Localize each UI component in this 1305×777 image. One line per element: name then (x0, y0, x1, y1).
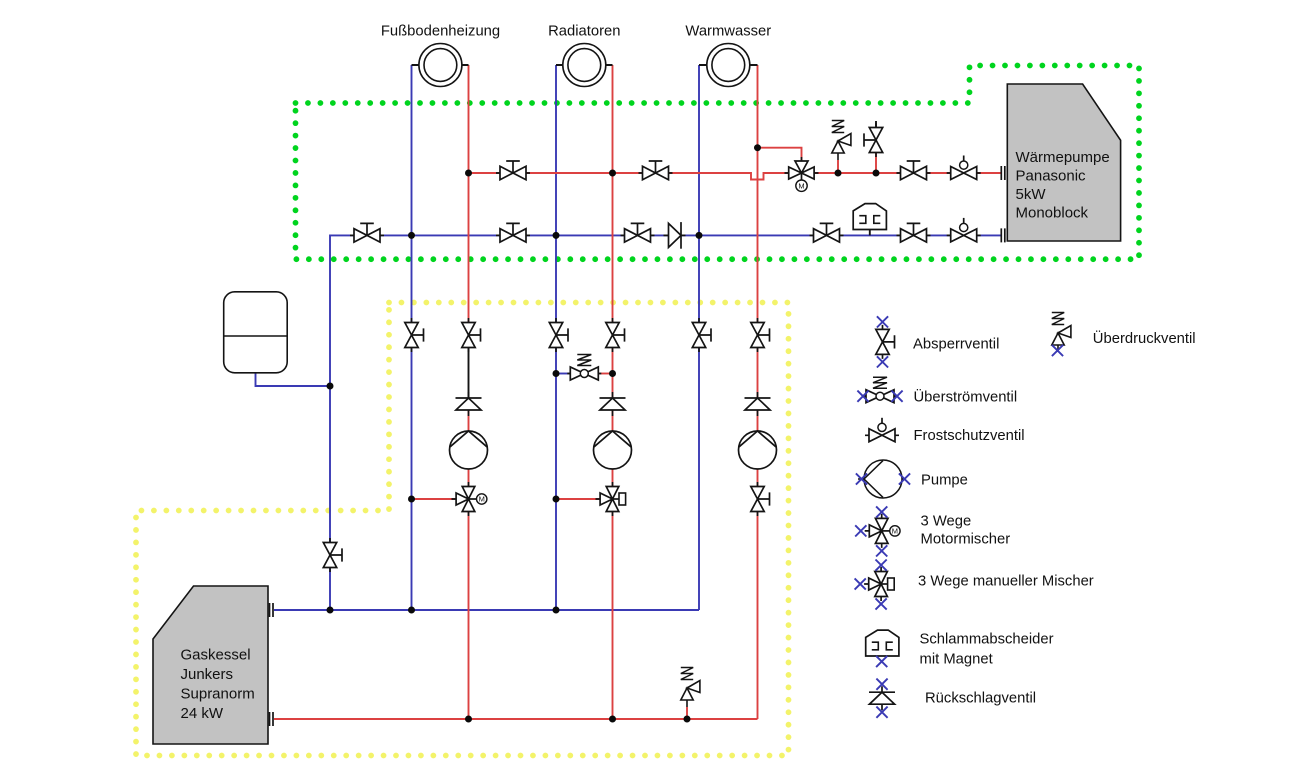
legend Rueckschlagventil (869, 679, 1036, 718)
svg-text:Junkers: Junkers (181, 666, 234, 683)
junction FBH supply / main supply (465, 170, 472, 177)
junction overflow right (609, 370, 616, 377)
junction Radiatoren supply / main supply (609, 170, 616, 177)
legend Ueberdruckventil (1052, 313, 1196, 357)
svg-text:Panasonic: Panasonic (1016, 168, 1087, 185)
wire: expansion vessel link (256, 373, 331, 386)
svg-text:Pumpe: Pumpe (921, 473, 968, 489)
svg-text:Überdruckventil: Überdruckventil (1093, 329, 1196, 347)
valve blue main right (621, 223, 655, 242)
svg-text:24 kW: 24 kW (181, 705, 224, 722)
legend 3 Wege manueller Mischer (855, 560, 1094, 610)
svg-text:Wärmepumpe: Wärmepumpe (1016, 149, 1110, 166)
svg-text:Monoblock: Monoblock (1016, 205, 1089, 222)
wire: FBH supply red column (468, 65, 470, 345)
FBH motor mixer (452, 482, 487, 516)
Radiatoren manual mixer (596, 482, 626, 516)
Absperrventil Warmwasser return (692, 318, 711, 352)
junction boiler relief valve (684, 716, 691, 723)
junction relief valve top (835, 170, 842, 177)
wire: FBH supply red column lower (468, 398, 470, 719)
check valve blue main (664, 222, 686, 249)
junction Radiatoren mixer branch (553, 496, 560, 503)
junction fill valve (873, 170, 880, 177)
legend 3 Wege Motormischer (855, 506, 1010, 556)
legend Frostschutzventil (865, 418, 1025, 444)
svg-text:Absperrventil: Absperrventil (913, 337, 999, 353)
wire: fill valve stub top line (875, 152, 877, 173)
junction boiler return riser (327, 607, 334, 614)
junction Warmwasser return / main return (696, 232, 703, 239)
top 3-way motor mixer (785, 157, 819, 191)
valve on expansion riser (323, 538, 342, 572)
wire: relief valve stub top line (837, 160, 839, 173)
pressure relief valve bottom (681, 668, 700, 708)
Absperrventil Radiatoren return (549, 318, 568, 352)
Rueckschlagventil Warmwasser (745, 392, 771, 416)
legend Schlammabscheider (866, 630, 1054, 667)
connector heat pump supply (1001, 166, 1005, 180)
svg-text:Supranorm: Supranorm (181, 686, 255, 703)
Rueckschlagventil FBH (456, 392, 482, 416)
svg-text:Fußbodenheizung: Fußbodenheizung (381, 24, 500, 40)
Pumpe Warmwasser (739, 431, 777, 469)
wire: overflow valve left blue stub (556, 373, 571, 375)
wire: overflow valve right red stub (597, 373, 613, 375)
junction FBH return / main return (408, 232, 415, 239)
svg-text:Radiatoren: Radiatoren (548, 24, 620, 40)
wire: FBH supply black segment (468, 345, 470, 398)
Rueckschlagventil Radiatoren (600, 392, 626, 416)
svg-text:5kW: 5kW (1016, 186, 1047, 203)
wire: bottom blue line from boiler (274, 609, 699, 611)
wire: red stub to FBH mixer (412, 498, 457, 500)
valve blue main far left (350, 223, 384, 242)
Pumpe FBH (450, 431, 488, 469)
junction overflow left (553, 370, 560, 377)
valve blue before sludge separator (810, 223, 844, 242)
consumer Radiatoren (563, 44, 606, 87)
valve red line before heat pump (897, 161, 931, 180)
svg-text:Überströmventil: Überströmventil (914, 388, 1018, 406)
Absperrventil FBH supply (462, 318, 481, 352)
green dotted boundary (heat pump circuit) (296, 66, 1140, 260)
sludge separator stub (869, 230, 871, 236)
svg-text:Rückschlagventil: Rückschlagventil (925, 691, 1036, 707)
connector boiler return (270, 603, 274, 617)
connector boiler supply (270, 712, 274, 726)
consumer Fussbodenheizung (419, 44, 462, 87)
boiler box (153, 586, 268, 744)
junction FBH mixer branch (408, 496, 415, 503)
junction Radiatoren return / main return (553, 232, 560, 239)
svg-text:Motormischer: Motormischer (921, 532, 1011, 548)
legend Ueberstroemventil (857, 377, 1017, 405)
Absperrventil Warmwasser supply (751, 318, 770, 352)
Absperrventil FBH return (405, 318, 424, 352)
wire: Warmwasser supply red column (757, 65, 759, 719)
wire: red stub to Radiatoren mixer (556, 498, 600, 500)
svg-text:Frostschutzventil: Frostschutzventil (914, 428, 1025, 444)
wire: main red supply line with jog (469, 173, 1001, 180)
svg-text:3 Wege manueller Mischer: 3 Wege manueller Mischer (918, 574, 1094, 590)
junction expansion vessel (327, 383, 334, 390)
junction Radiatoren column boiler supply (609, 716, 616, 723)
svg-text:3 Wege: 3 Wege (921, 514, 972, 530)
yellow dotted boundary (boiler circuit) (136, 303, 789, 756)
wire: FBH return blue column (411, 65, 413, 610)
wire: main blue return line to heat pump (330, 235, 1001, 610)
expansion vessel (224, 292, 288, 373)
svg-text:Gaskessel: Gaskessel (181, 647, 251, 664)
junction Warmwasser supply / mixer branch (754, 144, 761, 151)
wire: red stub to top mixer (758, 148, 802, 161)
frost protection valve red line (947, 156, 981, 180)
fill valve vertical (handle left) (864, 123, 883, 157)
junction FBH column boiler return (408, 607, 415, 614)
consumer circle stubs (412, 64, 758, 66)
wire: bottom red line from boiler (274, 718, 758, 720)
connector heat pump return (1001, 228, 1005, 242)
valve on red main line right (639, 161, 673, 180)
wire: Radiatoren return blue column (555, 65, 557, 610)
Warmwasser valve lower (751, 482, 770, 516)
Pumpe Radiatoren (594, 431, 632, 469)
wire: Warmwasser return blue column (698, 65, 700, 610)
fill valve top lead (875, 121, 877, 128)
valve blue before heat pump (897, 223, 931, 242)
wire: Radiatoren supply red column (612, 65, 614, 719)
frost protection valve blue line (947, 218, 981, 242)
pressure relief valve top (832, 121, 851, 161)
svg-text:Schlammabscheider: Schlammabscheider (920, 632, 1054, 648)
svg-text:mit Magnet: mit Magnet (920, 652, 993, 668)
Absperrventil Radiatoren supply (606, 318, 625, 352)
Ueberstroemventil between Radiatoren supply and return (567, 355, 601, 381)
junction FBH column boiler supply (465, 716, 472, 723)
legend Pumpe (856, 460, 968, 498)
wire: relief valve stub bottom line (686, 707, 688, 719)
consumer Warmwasser (707, 44, 750, 87)
svg-text:Warmwasser: Warmwasser (685, 24, 771, 40)
valve on red main line left (496, 161, 530, 180)
sludge separator with magnet (853, 204, 886, 230)
legend Absperrventil (876, 316, 1000, 367)
valve blue main mid (496, 223, 530, 242)
heat pump box (1007, 84, 1120, 241)
junction Radiatoren column boiler return (553, 607, 560, 614)
